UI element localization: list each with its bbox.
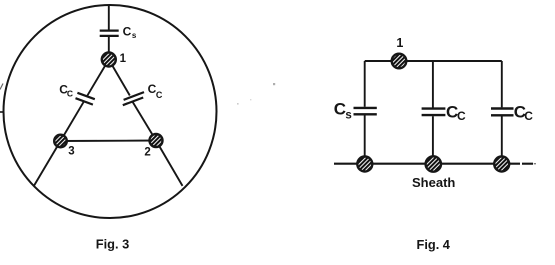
svg-text:1: 1: [120, 53, 127, 65]
svg-text:2: 2: [144, 146, 150, 158]
svg-text:C: C: [457, 109, 466, 123]
svg-text:Fig. 3: Fig. 3: [96, 236, 129, 251]
svg-text:s: s: [132, 31, 137, 40]
svg-text:C: C: [524, 109, 533, 123]
svg-text:Fig. 4: Fig. 4: [417, 237, 451, 252]
svg-text:1: 1: [396, 36, 403, 50]
svg-text:C: C: [123, 25, 132, 39]
svg-text:C: C: [156, 90, 163, 100]
svg-text:s: s: [345, 110, 351, 122]
svg-text:C: C: [67, 88, 73, 98]
svg-text:3: 3: [68, 145, 74, 157]
svg-text:Sheath: Sheath: [412, 175, 455, 190]
svg-text:C: C: [334, 100, 346, 119]
